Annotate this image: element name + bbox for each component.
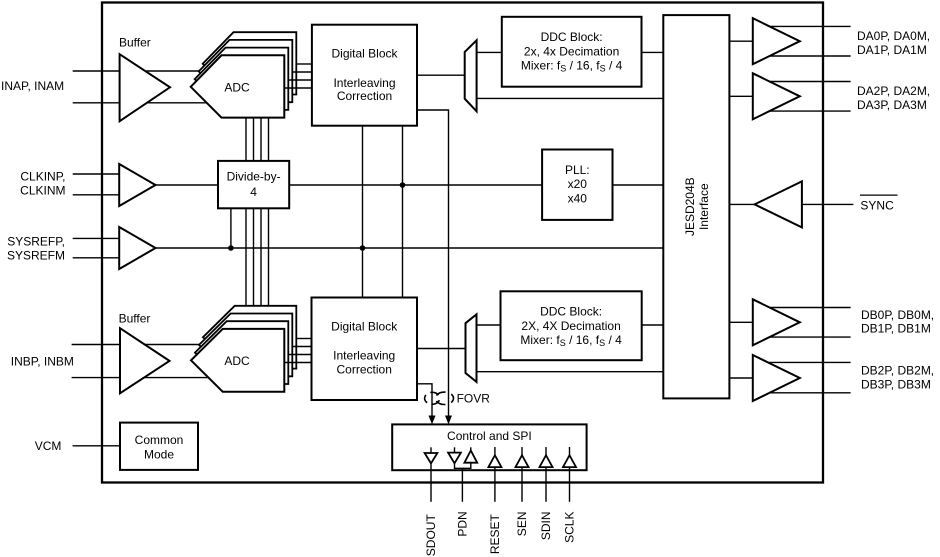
svg-text:FOVR: FOVR bbox=[457, 392, 491, 406]
svg-text:PDN: PDN bbox=[456, 511, 470, 536]
svg-text:Mixer: fS / 16, fS / 4: Mixer: fS / 16, fS / 4 bbox=[521, 58, 623, 73]
junction dot on clock line bbox=[400, 182, 406, 188]
wire JESD to out buffer A1 bbox=[729, 40, 752, 42]
DDC block A bbox=[502, 17, 642, 87]
svg-text:DB0P, DB0M,: DB0P, DB0M, bbox=[861, 308, 934, 322]
SYNC input buffer (points left) bbox=[755, 181, 802, 227]
svg-text:Digital Block: Digital Block bbox=[331, 320, 398, 334]
SDIN buffer (up) bbox=[545, 447, 547, 455]
wire INBP/INBM input lines bbox=[72, 345, 210, 378]
svg-text:2x, 4x Decimation: 2x, 4x Decimation bbox=[524, 45, 619, 59]
svg-text:x20: x20 bbox=[568, 177, 588, 191]
wire output pair A1 bbox=[769, 26, 851, 56]
wire JESD to out buffer B2 bbox=[729, 377, 752, 379]
wire JESD to out buffer B1 bbox=[729, 321, 752, 323]
svg-text:SYSREFP,: SYSREFP, bbox=[7, 234, 65, 248]
svg-text:PLL:: PLL: bbox=[565, 163, 590, 177]
wire FOVR line 1 from digital A bbox=[417, 110, 449, 417]
output buffer B1 bbox=[753, 299, 800, 345]
wire output pair A2 bbox=[769, 82, 851, 112]
svg-text:SYNC: SYNC bbox=[860, 198, 894, 212]
svg-text:SEN: SEN bbox=[515, 512, 529, 537]
svg-text:SCLK: SCLK bbox=[563, 512, 577, 543]
wire mux B to DDC B bbox=[477, 324, 501, 326]
svg-text:INAP, INAM: INAP, INAM bbox=[1, 79, 64, 93]
junction dot sysref/divider bbox=[228, 245, 234, 251]
buffer B (input buffer, bottom) bbox=[120, 328, 170, 393]
output buffer A2 bbox=[753, 73, 800, 119]
wire mux A bypass to JESD bbox=[477, 97, 664, 99]
wire ADC B output bus bbox=[284, 339, 311, 363]
svg-text:Common: Common bbox=[135, 433, 184, 447]
svg-text:x40: x40 bbox=[568, 192, 588, 206]
wire ADC A output bus bbox=[284, 64, 312, 88]
output buffer A1 bbox=[753, 18, 800, 64]
svg-text:DB1P, DB1M: DB1P, DB1M bbox=[861, 321, 931, 335]
digital block B bbox=[312, 298, 418, 401]
wire vertical ADC bus A to B bbox=[246, 117, 269, 330]
wire mux A to DDC A bbox=[477, 51, 502, 53]
PDN buffer pair bbox=[454, 447, 456, 452]
pin PDN bbox=[461, 468, 463, 502]
svg-text:Interleaving: Interleaving bbox=[333, 349, 395, 363]
buffer SYSREF bbox=[119, 227, 155, 269]
buffer CLKIN bbox=[119, 164, 155, 206]
svg-text:Mixer: fS / 16, fS / 4: Mixer: fS / 16, fS / 4 bbox=[520, 333, 622, 348]
wire INAP/INAM input lines bbox=[73, 71, 210, 103]
wire output pair B2 bbox=[769, 362, 851, 392]
junction dot sysref/vertical1 bbox=[360, 245, 366, 251]
svg-text:CLKINP,: CLKINP, bbox=[20, 170, 65, 184]
wire VCM line bbox=[73, 445, 120, 447]
wire SYSREFP/SYSREFM input lines bbox=[73, 238, 120, 257]
svg-text:VCM: VCM bbox=[35, 439, 62, 453]
pin RESET bbox=[494, 467, 496, 502]
wire output pair B1 bbox=[769, 308, 851, 338]
ADC A stack bbox=[191, 32, 297, 117]
wire CLKINP/CLKINM input lines bbox=[73, 174, 120, 195]
svg-text:Correction: Correction bbox=[337, 362, 392, 376]
svg-text:DA2P, DA2M,: DA2P, DA2M, bbox=[857, 84, 930, 98]
ADC B stack bbox=[191, 306, 296, 392]
wire SYNC buffer to JESD bbox=[729, 203, 754, 205]
chip boundary bbox=[102, 3, 823, 483]
svg-text:INBP, INBM: INBP, INBM bbox=[11, 355, 74, 369]
PLL block bbox=[542, 150, 612, 220]
svg-text:Correction: Correction bbox=[337, 89, 392, 103]
svg-text:4: 4 bbox=[250, 185, 257, 199]
svg-text:Control and SPI: Control and SPI bbox=[447, 429, 532, 443]
control and SPI block bbox=[392, 424, 586, 470]
svg-text:SDIN: SDIN bbox=[539, 512, 553, 541]
svg-text:SYSREFM: SYSREFM bbox=[7, 248, 65, 262]
divide-by-4 block bbox=[218, 161, 289, 208]
wire DDC B to JESD bbox=[642, 324, 664, 326]
pin SDIN bbox=[545, 467, 547, 502]
svg-text:DB3P, DB3M: DB3P, DB3M bbox=[861, 378, 931, 392]
svg-text:ADC: ADC bbox=[224, 80, 250, 94]
svg-text:DDC Block:: DDC Block: bbox=[541, 30, 603, 44]
wire FOVR line 2 from digital B bbox=[417, 384, 432, 417]
RESET buffer (up) bbox=[494, 447, 496, 455]
svg-text:Interface: Interface bbox=[697, 183, 711, 230]
buffer A (input buffer, top) bbox=[120, 54, 170, 121]
wire mux B bypass to JESD bbox=[477, 371, 664, 373]
FOVR dashed ellipse 1 bbox=[425, 392, 440, 404]
output buffer B2 bbox=[753, 355, 800, 401]
mux B bbox=[466, 314, 477, 382]
svg-text:DB2P, DB2M,: DB2P, DB2M, bbox=[861, 364, 934, 378]
svg-text:Interleaving: Interleaving bbox=[333, 76, 395, 90]
svg-text:RESET: RESET bbox=[488, 513, 502, 554]
wire divider to SYSREF net bbox=[230, 208, 232, 248]
wire digital block A to B vertical 2 bbox=[402, 126, 404, 298]
wire digital block A to B vertical 1 bbox=[362, 126, 364, 298]
svg-text:CLKINM: CLKINM bbox=[20, 183, 65, 197]
wire digital B to mux B bbox=[417, 348, 466, 350]
common mode block bbox=[120, 423, 198, 470]
svg-text:DA0P, DA0M,: DA0P, DA0M, bbox=[857, 29, 930, 43]
pin SDOUT bbox=[430, 463, 432, 501]
SEN buffer (up) bbox=[521, 447, 523, 455]
wire JESD to out buffer A2 bbox=[729, 95, 752, 97]
mux A bbox=[465, 40, 477, 111]
JESD204B interface block bbox=[663, 15, 729, 398]
svg-text:Mode: Mode bbox=[144, 447, 174, 461]
svg-text:Buffer: Buffer bbox=[119, 312, 151, 326]
svg-text:DDC Block:: DDC Block: bbox=[540, 304, 602, 318]
svg-text:2X, 4X Decimation: 2X, 4X Decimation bbox=[521, 319, 620, 333]
wire digital A to mux A bbox=[417, 74, 465, 76]
SDOUT buffer (down) bbox=[430, 447, 432, 453]
svg-text:DA1P, DA1M: DA1P, DA1M bbox=[857, 43, 927, 57]
svg-text:Divide-by-: Divide-by- bbox=[227, 170, 281, 184]
svg-text:SDOUT: SDOUT bbox=[424, 514, 438, 557]
pin SCLK bbox=[569, 467, 571, 502]
FOVR arrowhead 1 bbox=[445, 416, 452, 425]
svg-text:JESD204B: JESD204B bbox=[683, 177, 697, 236]
wire SYSREF horizontal line bbox=[156, 247, 664, 249]
svg-text:Buffer: Buffer bbox=[119, 36, 151, 50]
DDC block B bbox=[501, 291, 642, 360]
digital block A bbox=[312, 25, 417, 126]
wire DDC A to JESD bbox=[642, 51, 664, 53]
wire clock line to divider, PLL, JESD bbox=[156, 184, 664, 186]
pin SEN bbox=[521, 467, 523, 502]
wire SYNC line bbox=[802, 203, 854, 205]
FOVR dashed ellipse 2 bbox=[436, 392, 454, 404]
svg-text:Digital Block: Digital Block bbox=[331, 46, 398, 60]
SCLK buffer (up) bbox=[569, 447, 571, 455]
svg-text:ADC: ADC bbox=[224, 354, 250, 368]
svg-text:DA3P, DA3M: DA3P, DA3M bbox=[857, 98, 927, 112]
